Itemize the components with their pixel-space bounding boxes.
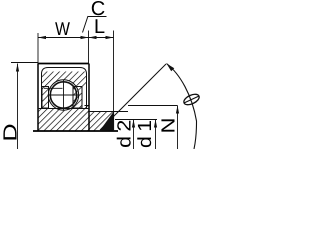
leader diagonal line	[100, 64, 166, 130]
inner ring top line	[38, 108, 89, 110]
ball centerline vertical	[63, 80, 65, 111]
theta arc arrowhead	[167, 64, 175, 72]
N extension line	[128, 105, 178, 107]
leader arrowhead	[100, 113, 114, 132]
inner ring hatched block	[38, 109, 89, 132]
C leader diagonal	[83, 16, 89, 33]
N dimension line	[177, 106, 179, 150]
W arrow right	[81, 36, 89, 39]
extension bar right face	[113, 112, 115, 132]
ball centerline horizontal	[48, 94, 80, 96]
d1 arrow up	[154, 120, 157, 128]
inner ring right shoulder hatched	[85, 106, 90, 109]
L arrow right	[106, 36, 114, 39]
bearing right face	[88, 64, 90, 132]
inner ring extension bar hatched	[89, 112, 114, 132]
L dimension line	[89, 37, 114, 39]
W label	[55, 22, 70, 35]
W arrow left	[38, 36, 46, 39]
inner ring right shoulder top line	[85, 105, 90, 107]
C label	[92, 1, 105, 15]
ball clearance raceway circle	[48, 80, 78, 110]
D label rotated	[3, 125, 16, 140]
d2 arrow up	[132, 120, 135, 128]
L extension line right	[113, 31, 115, 112]
D arrow up	[16, 64, 19, 72]
d2 label rotated	[117, 121, 131, 147]
bearing left face	[37, 64, 39, 132]
bearing outer ring hatched band	[42, 72, 87, 87]
d2 extension line	[115, 119, 157, 121]
theta label rotated	[182, 92, 200, 107]
d1 dimension line	[155, 120, 157, 150]
theta angle arc	[167, 64, 197, 150]
W/L shared extension line	[88, 31, 90, 64]
D dimension line	[17, 64, 19, 150]
d1 label rotated	[137, 121, 151, 147]
inner contour of outer ring	[42, 68, 87, 109]
N arrow up	[176, 106, 179, 114]
L arrow left	[89, 36, 97, 39]
seal right hatched column	[73, 87, 82, 109]
ball	[50, 82, 76, 108]
N label rotated	[161, 119, 174, 131]
seal lip line over ball	[44, 87, 63, 89]
C leader underline	[88, 16, 107, 18]
bearing OD top line	[38, 63, 89, 65]
W extension line left	[37, 33, 39, 64]
extension bar top line	[89, 111, 128, 113]
seal left hatched column	[42, 87, 49, 109]
D extension line top	[11, 62, 38, 64]
d2 dimension line	[133, 120, 135, 150]
L label	[96, 19, 105, 33]
bore line	[33, 130, 118, 132]
W dimension line	[38, 37, 89, 39]
